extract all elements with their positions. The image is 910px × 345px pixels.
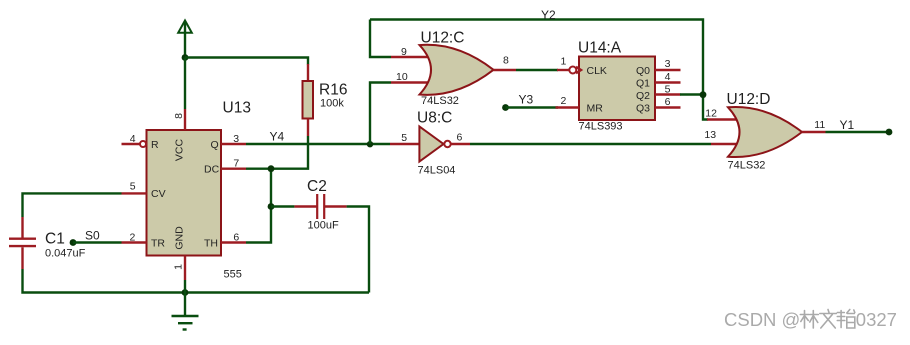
svg-text:DC: DC (204, 163, 220, 175)
svg-text:6: 6 (457, 132, 463, 144)
wire U8 out to pin13 (470, 143, 711, 145)
capacitor C1 (9, 217, 36, 269)
pin 7 DC stub (221, 167, 246, 169)
svg-text:74LS04: 74LS04 (418, 165, 456, 177)
wire gate8 to CLK (516, 69, 558, 71)
wire C1 bottom to ground row (23, 269, 370, 293)
svg-text:74LS32: 74LS32 (421, 95, 459, 107)
svg-text:Q: Q (211, 139, 219, 151)
pin 8 VCC stub (184, 109, 186, 130)
wire Y2 top run (370, 20, 708, 120)
svg-text:74LS32: 74LS32 (728, 160, 766, 172)
node power junction (182, 54, 189, 61)
svg-text:TR: TR (151, 237, 165, 249)
svg-text:Q3: Q3 (636, 102, 650, 114)
svg-text:6: 6 (665, 96, 671, 108)
svg-text:Y3: Y3 (519, 92, 534, 106)
node Q2 junction (700, 91, 707, 98)
wire C2 left (271, 205, 294, 207)
resistor R16 (303, 64, 314, 136)
svg-text:Y1: Y1 (840, 118, 855, 132)
svg-text:CLK: CLK (587, 65, 607, 77)
svg-text:5: 5 (665, 83, 671, 95)
ground (172, 293, 199, 330)
svg-text:100uF: 100uF (308, 219, 339, 231)
svg-text:TH: TH (204, 237, 218, 249)
svg-text:11: 11 (814, 119, 825, 131)
svg-text:GND: GND (174, 226, 186, 250)
pin 3 Q stub (221, 143, 246, 145)
svg-text:1: 1 (173, 264, 185, 270)
svg-text:74LS393: 74LS393 (579, 121, 623, 133)
pin names 555 (151, 138, 220, 249)
wire CV loop left (23, 193, 122, 217)
svg-text:0327: 0327 (856, 309, 897, 330)
svg-text:Y2: Y2 (541, 8, 556, 22)
node Y1 end (886, 129, 893, 136)
svg-text:Y4: Y4 (270, 130, 285, 144)
svg-text:12: 12 (705, 107, 717, 119)
inverter U8:C (390, 127, 470, 162)
svg-text:100k: 100k (320, 98, 344, 110)
svg-text:Q1: Q1 (636, 77, 650, 89)
pin 1 GND stub (184, 256, 186, 281)
pin 5 CV stub (122, 192, 147, 194)
pin names U14 (587, 65, 651, 115)
pin 2 TR stub (122, 241, 147, 243)
svg-text:C1: C1 (45, 231, 65, 248)
node DC junction (268, 165, 275, 172)
wire power to R16 top (185, 58, 308, 65)
svg-text:5: 5 (130, 181, 136, 193)
wire TH to junction column (246, 169, 271, 243)
svg-text:10: 10 (396, 71, 408, 83)
node ground junction (182, 289, 189, 296)
svg-text:U13: U13 (223, 100, 251, 117)
svg-text:4: 4 (665, 71, 671, 83)
svg-text:6: 6 (233, 231, 239, 243)
power symbol (178, 21, 192, 59)
svg-text:1: 1 (561, 55, 567, 67)
svg-text:8: 8 (503, 55, 509, 67)
pin 4 R stub with bubble (122, 141, 147, 147)
svg-text:U12:D: U12:D (727, 91, 771, 108)
svg-text:R: R (151, 139, 159, 151)
svg-text:U14:A: U14:A (578, 40, 622, 57)
pin 6 TH stub (221, 241, 246, 243)
wire Y3 to MR (506, 106, 559, 108)
svg-text:U8:C: U8:C (417, 110, 452, 127)
svg-text:U12:C: U12:C (421, 30, 465, 47)
wire S0 to TR (73, 241, 122, 243)
wire power down to VCC (184, 58, 186, 110)
svg-text:CSDN @: CSDN @ (724, 309, 800, 330)
capacitor C2 (294, 194, 346, 219)
svg-text:Q2: Q2 (636, 90, 650, 102)
svg-text:2: 2 (130, 231, 136, 243)
svg-text:3: 3 (233, 133, 239, 145)
svg-text:Q0: Q0 (636, 65, 650, 77)
555 timer U13 body (147, 130, 222, 256)
wire Q row to U8 input (246, 143, 390, 145)
wire Y2 left vertical to pin9 (370, 20, 391, 58)
svg-text:555: 555 (224, 269, 242, 281)
node Y4 junction (367, 141, 373, 147)
svg-text:4: 4 (130, 133, 136, 145)
wire Q2 to Y2 column (680, 93, 703, 95)
svg-text:R16: R16 (319, 82, 347, 99)
node S0 (70, 239, 77, 246)
svg-text:9: 9 (401, 46, 407, 58)
wire Y1 output (826, 131, 890, 133)
wire pin10 vertical (370, 83, 391, 145)
or-gate U12:D (707, 107, 826, 157)
svg-text:MR: MR (587, 102, 604, 114)
svg-text:3: 3 (665, 58, 671, 70)
wire GND pin to ground row (184, 280, 186, 293)
or-gate U12:C (391, 45, 516, 95)
watermark (724, 309, 897, 330)
svg-text:7: 7 (233, 158, 239, 170)
svg-text:8: 8 (173, 113, 185, 119)
wire R16 bottom to DC row (246, 136, 308, 169)
svg-text:S0: S0 (85, 228, 100, 242)
svg-text:5: 5 (401, 132, 407, 144)
svg-text:2: 2 (561, 95, 567, 107)
counter U14:A 74LS393 (556, 57, 681, 121)
node C2 left junction (268, 203, 275, 210)
svg-text:C2: C2 (307, 178, 327, 195)
svg-text:CV: CV (151, 188, 166, 200)
wire C2 right down to ground row (347, 207, 369, 293)
svg-text:0.047uF: 0.047uF (45, 248, 86, 260)
svg-text:VCC: VCC (174, 138, 186, 161)
node Y3 (502, 104, 509, 111)
svg-text:13: 13 (704, 129, 716, 141)
